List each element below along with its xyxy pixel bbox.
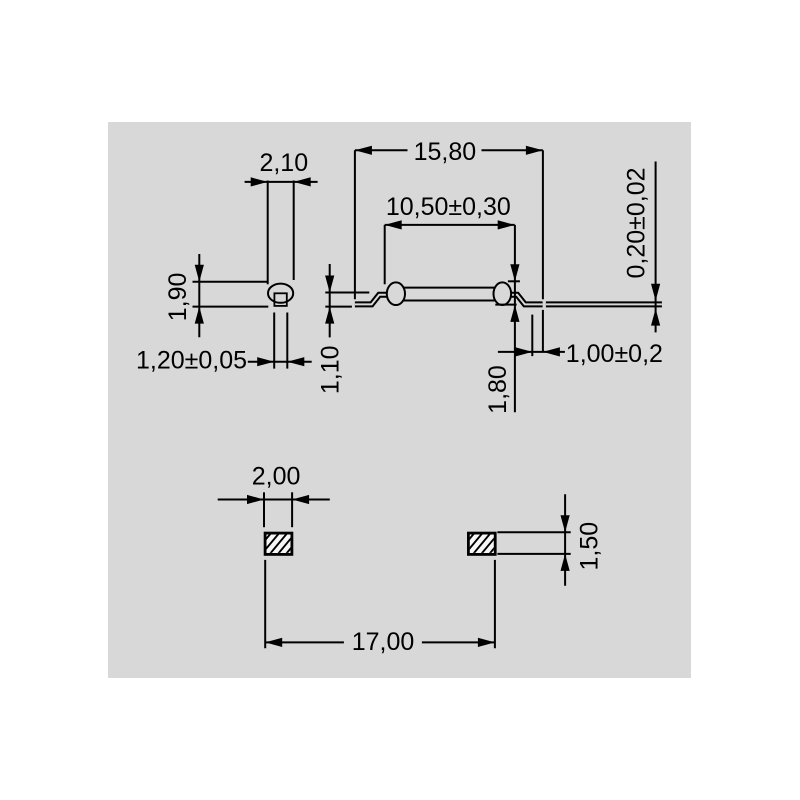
svg-text:1,90: 1,90 — [164, 273, 192, 322]
right lead continuation (uncut wire) — [546, 301, 662, 307]
extension lines 17,00 — [264, 560, 266, 648]
svg-text:2,10: 2,10 — [259, 149, 308, 177]
dim line 1,80 / ext 10,50 right — [514, 225, 516, 412]
svg-text:1,00±0,2: 1,00±0,2 — [566, 340, 663, 368]
dim line 1,00 with arrows — [498, 351, 565, 353]
svg-text:0,20±0,02: 0,20±0,02 — [623, 167, 651, 278]
dim line 1,20 with arrows — [248, 361, 312, 363]
arrows 1,80 — [510, 264, 519, 281]
dim line 2,00 — [218, 499, 330, 501]
dim line 0,20 lower arrow — [651, 309, 660, 326]
svg-text:1,20±0,05: 1,20±0,05 — [136, 347, 247, 375]
left lead (formed wire) — [355, 295, 397, 305]
dim line 1,50 with arrows — [564, 494, 566, 585]
dim line 17,00 — [265, 641, 344, 643]
left end bead — [387, 282, 405, 305]
right lead (formed wire) — [501, 295, 543, 305]
dim line 0,20 upper arrow — [655, 162, 657, 322]
left solder pad (hatched) — [265, 533, 292, 554]
resistor body bottom edge — [402, 300, 496, 302]
tick bead bottom 1,80 — [495, 304, 516, 306]
right solder pad (hatched) — [468, 533, 495, 554]
extension line 10,50 left — [384, 225, 386, 284]
svg-text:2,00: 2,00 — [252, 462, 301, 490]
lead cross-section square — [274, 293, 286, 306]
extension line 15,80 left — [354, 150, 356, 299]
svg-text:17,00: 17,00 — [352, 628, 415, 656]
tick bead top 1,80 — [508, 280, 520, 282]
svg-text:1,50: 1,50 — [576, 522, 604, 571]
dim line 10,50 — [385, 224, 515, 226]
extension line 15,80 right (gap at lead) — [542, 150, 544, 299]
extension lines 2,00 — [263, 492, 265, 527]
dim line 1,90 with arrows — [198, 254, 200, 337]
svg-text:10,50±0,30: 10,50±0,30 — [386, 193, 511, 221]
svg-text:15,80: 15,80 — [414, 138, 477, 166]
drawing panel — [108, 122, 691, 678]
extension lines 1,90 — [193, 281, 269, 283]
extension line 1,00 left — [531, 315, 533, 357]
extension lines 1,10 — [325, 292, 369, 294]
right end bead — [494, 282, 512, 305]
svg-text:1,10: 1,10 — [317, 345, 345, 394]
body end-view ellipse — [268, 284, 293, 303]
extension lines 1,20 — [273, 313, 275, 369]
resistor body top edge — [402, 287, 496, 289]
dim line 1,10 with arrows — [329, 264, 331, 337]
svg-text:1,80: 1,80 — [484, 365, 512, 414]
dim line 2,10 — [245, 181, 318, 183]
extension lines 1,50 — [497, 531, 570, 533]
extension lines 2,10 — [267, 181, 269, 285]
dim line 15,80 — [355, 149, 408, 151]
